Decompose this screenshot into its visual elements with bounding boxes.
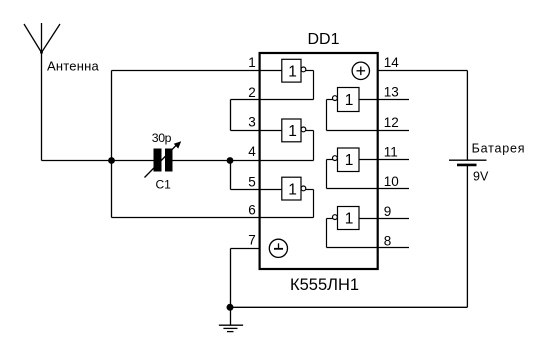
wire bottom return to battery: [230, 306, 467, 308]
svg-text:7: 7: [248, 233, 256, 248]
wire pin 7 ground lead: [231, 249, 261, 308]
power pin symbol plus circle: [352, 62, 369, 79]
wire battery minus down: [466, 166, 468, 308]
svg-text:1: 1: [345, 92, 354, 109]
wire pin 1 input: [112, 70, 282, 72]
svg-text:12: 12: [384, 115, 399, 130]
wire left vertical pin1-node-pin6: [111, 71, 113, 218]
wire pin 5 input: [231, 189, 282, 191]
inverter U1.2 box (pins 3-4): [282, 119, 314, 161]
battery 9V: [449, 160, 487, 165]
node A junction dot: [108, 157, 115, 164]
wire antenna to node A: [42, 160, 112, 162]
node C junction dot: [227, 304, 234, 311]
node B junction dot: [227, 157, 234, 164]
svg-text:1: 1: [248, 55, 256, 70]
inverter U1.1 box (pins 1-2): [282, 59, 314, 99]
inverter U1.5 box (pins 11-10): [327, 148, 410, 189]
wire pin 6 output: [112, 217, 314, 219]
svg-text:4: 4: [248, 144, 256, 159]
svg-text:6: 6: [248, 203, 256, 218]
common pin symbol circle: [269, 239, 287, 257]
svg-text:13: 13: [384, 85, 399, 100]
svg-text:1: 1: [288, 181, 297, 198]
svg-text:1: 1: [345, 152, 354, 169]
svg-text:30p: 30p: [152, 131, 172, 145]
svg-text:Антенна: Антенна: [47, 59, 99, 74]
capacitor C1 variable: [145, 141, 182, 177]
svg-text:14: 14: [384, 55, 400, 70]
inverter U1.4 box (pins 9-8): [327, 207, 410, 248]
svg-text:11: 11: [384, 145, 398, 160]
wire pin 2 output: [231, 99, 314, 101]
svg-text:3: 3: [248, 115, 256, 130]
wire C1 to node B: [173, 160, 231, 162]
wire antenna down lead: [41, 53, 43, 161]
svg-text:8: 8: [384, 233, 392, 248]
wire node B down to pin 5: [230, 161, 232, 190]
wire pin 14 to battery: [378, 71, 468, 161]
wire pin2 to pin3 jog: [230, 100, 232, 131]
svg-text:2: 2: [248, 85, 256, 100]
svg-text:9: 9: [384, 204, 392, 219]
svg-text:1: 1: [288, 64, 297, 81]
svg-text:Батарея: Батарея: [472, 141, 526, 155]
svg-text:10: 10: [384, 174, 399, 189]
IC DD1 body: [260, 53, 378, 269]
svg-text:К555ЛН1: К555ЛН1: [290, 276, 359, 294]
svg-text:1: 1: [288, 123, 297, 140]
antenna: [24, 23, 60, 54]
svg-text:9V: 9V: [473, 170, 489, 184]
wire pin 3 input: [231, 130, 282, 132]
wire node A to C1: [112, 160, 154, 162]
inverter U1.6 box (pins 13-12): [327, 88, 410, 131]
svg-text:1: 1: [345, 211, 354, 228]
svg-text:DD1: DD1: [308, 31, 340, 48]
wire pin 4 output: [230, 160, 314, 162]
ground: [219, 307, 243, 331]
svg-text:C1: C1: [156, 178, 172, 192]
svg-text:5: 5: [248, 175, 256, 190]
inverter U1.3 box (pins 5-6): [282, 177, 314, 217]
